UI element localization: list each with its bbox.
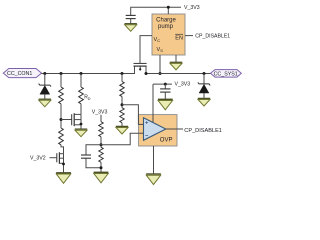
wire to Q2 gate [61, 119, 72, 121]
node R1 bus junction [60, 72, 63, 75]
svg-text:S: S [160, 48, 163, 53]
capacitor C2 [81, 155, 101, 168]
svg-text:pump: pump [158, 24, 174, 30]
wire V_C pin to pass FET gate [140, 36, 152, 64]
ground below OVP [146, 174, 161, 185]
wire ref branch top [100, 115, 102, 122]
charge pump U1 body [152, 14, 185, 55]
node cap return junction [100, 166, 103, 169]
wire Q3 gate lead [50, 157, 57, 159]
svg-text:V_3V3: V_3V3 [175, 81, 191, 87]
svg-text:CP_DISABLE1: CP_DISABLE1 [195, 34, 230, 40]
node TVS2 bus junction [203, 72, 206, 75]
resistor R2 [59, 128, 64, 154]
transistor Q1 pass FET [134, 63, 147, 70]
ground below Q3 [56, 173, 71, 184]
svg-text:V_3V2: V_3V2 [30, 156, 46, 162]
resistor R4 [99, 147, 103, 172]
ground below TVS1 [39, 99, 51, 107]
wire EN pin [185, 35, 193, 37]
wire bus right segment [146, 66, 211, 74]
svg-text:OVP: OVP [160, 138, 173, 144]
node sense tap junction [121, 103, 124, 106]
wire TVS1 stub [44, 74, 46, 86]
connector CC_CON1 [3, 69, 41, 78]
connector CC_SYS1 [211, 70, 242, 78]
wire OVP supply drop [152, 84, 154, 122]
TVS diode D1 [39, 84, 51, 100]
wire V_3V3 top rail [131, 7, 181, 15]
wire ref node to OVP minus input [101, 133, 144, 145]
resistor R1 [59, 74, 64, 129]
ground below R6 [116, 126, 128, 134]
wire OVP ground pin [153, 146, 155, 174]
ground below C1 [125, 24, 137, 32]
OVP block U2 body [139, 115, 177, 146]
wire sense tap to OVP plus input [122, 105, 144, 125]
capacitor C3 [160, 84, 170, 99]
wire V_S pin to bus [159, 55, 161, 74]
transistor Q2 [72, 113, 83, 129]
wire TVS2 stub [203, 74, 205, 84]
svg-text:V_3V3: V_3V3 [184, 5, 200, 11]
svg-text:V_3V3: V_3V3 [92, 110, 108, 116]
node V_S bus junction [159, 72, 162, 75]
op-amp U2 comparator triangle [144, 118, 166, 141]
transistor Q3 [57, 152, 65, 173]
node divider mid junction [60, 118, 63, 121]
resistor R5 [120, 74, 124, 108]
resistor R_D [79, 74, 84, 115]
wire bus left segment [42, 66, 135, 74]
ground below Q2 [75, 129, 87, 137]
wire charge pump top pin [167, 7, 169, 14]
TVS diode D2 [198, 82, 210, 98]
ground below R4 [94, 172, 109, 183]
resistor R3 [99, 122, 103, 148]
node ref divider junction [100, 143, 103, 146]
node V_3V3 top junction [167, 6, 170, 9]
svg-text:Charge: Charge [156, 17, 176, 23]
svg-text:EN: EN [175, 36, 183, 42]
ground below C3 [158, 99, 173, 110]
svg-text:CC_CON1: CC_CON1 [7, 71, 32, 77]
node R_D bus junction [80, 72, 83, 75]
wire V_3V3 mid rail [153, 83, 172, 85]
wire ref node to cap [86, 145, 101, 155]
svg-text:C: C [157, 38, 160, 43]
svg-text:D: D [88, 97, 91, 101]
ground below charge pump [170, 62, 182, 70]
wire charge pump gnd pin [175, 55, 177, 62]
capacitor C1 top-left [126, 15, 136, 23]
node sense divider bus junction [121, 72, 124, 75]
node mid cap junction [164, 83, 167, 86]
svg-text:CC_SYS1: CC_SYS1 [214, 71, 238, 77]
wire OVP output [166, 128, 183, 130]
ground below TVS2 [198, 98, 210, 106]
resistor R6 [120, 108, 124, 127]
node TVS1 bus junction [43, 72, 46, 75]
node bus right leg junction [145, 72, 148, 75]
svg-text:CP_DISABLE1: CP_DISABLE1 [184, 128, 222, 134]
